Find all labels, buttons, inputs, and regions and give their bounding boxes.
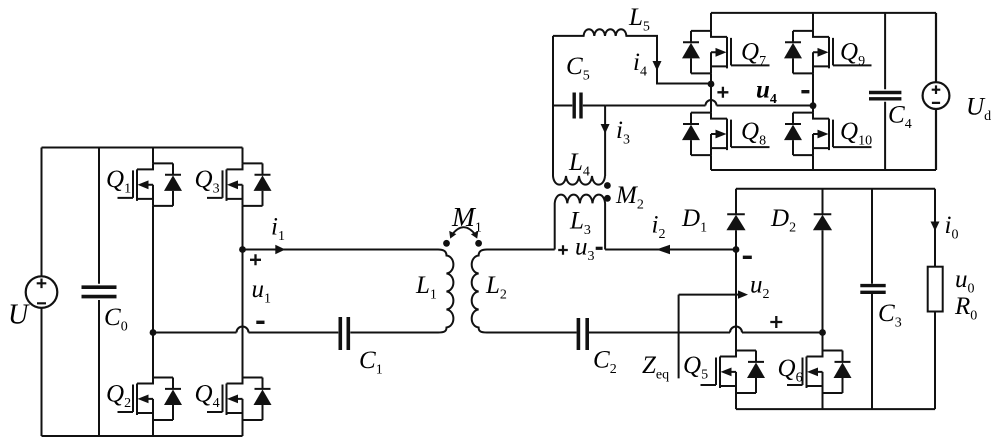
- current arrow i3: [601, 124, 610, 134]
- transistor Q9: [784, 31, 872, 74]
- wire Q1/Q2 leg: [152, 148, 154, 437]
- transistor Q6: [787, 351, 852, 394]
- label u2 minus sign: [743, 256, 752, 259]
- label u1 plus: [250, 254, 261, 265]
- wire D2/Q6 leg: [822, 189, 824, 409]
- node u4 plus: [708, 81, 715, 88]
- transistor Q2: [118, 378, 183, 421]
- wire D1/Q5 leg: [735, 189, 737, 409]
- transistor Q8: [682, 113, 770, 156]
- wire C5 to bridge with hop: [605, 105, 813, 107]
- capacitor C5: [574, 93, 581, 119]
- transistor Q3: [207, 163, 272, 206]
- node rectifier ac2: [819, 329, 826, 336]
- capacitor C5 branch: [553, 105, 605, 107]
- source U: [26, 276, 58, 308]
- node bridge output -: [150, 329, 157, 336]
- node bridge output +: [239, 246, 246, 253]
- transistor Q5: [701, 351, 766, 394]
- node L1 dot: [443, 240, 450, 247]
- wire HF bridge top rail: [711, 12, 936, 14]
- current arrow i1: [275, 245, 285, 254]
- source Ud: [923, 13, 950, 170]
- transistor Q1: [118, 163, 183, 206]
- capacitor C0: [82, 148, 117, 437]
- diode D2: [813, 214, 832, 230]
- wire bottom output with hop: [153, 332, 438, 334]
- inductor L2: [472, 250, 487, 333]
- wire i3 vertical: [604, 106, 606, 177]
- node u4 minus: [810, 102, 817, 109]
- svg-text:U: U: [8, 300, 30, 331]
- inductor L5: [553, 29, 711, 83]
- wire secondary bottom: [487, 332, 823, 334]
- wire HF bridge bottom rail: [711, 169, 936, 171]
- node L2 dot: [475, 240, 482, 247]
- label u4 plus sign: [717, 87, 728, 98]
- wire load leg: [934, 189, 936, 409]
- node M2 dot lower: [604, 195, 611, 202]
- wire left edge source leg: [41, 148, 43, 437]
- wire Q9/Q10 leg: [812, 13, 814, 170]
- label u4 minus sign: [801, 90, 809, 93]
- capacitor C3: [860, 189, 885, 409]
- capacitor C4: [869, 13, 901, 170]
- inductor L3: [555, 195, 605, 250]
- inductor L4: [553, 36, 605, 185]
- label u2 arrow: [679, 290, 748, 378]
- transistor Q10: [784, 113, 872, 156]
- capacitor C1: [340, 317, 348, 350]
- capacitor C2: [578, 318, 587, 350]
- inductor L1: [438, 250, 453, 333]
- wire i2: [605, 249, 736, 251]
- current arrow i2: [656, 245, 670, 254]
- wire left bridge bottom rail: [42, 435, 243, 437]
- wire hop over Q3Q4 leg: [237, 327, 249, 333]
- diode D1: [726, 214, 745, 230]
- wire rectifier top rail: [736, 188, 935, 190]
- transistor Q4: [207, 378, 272, 421]
- node i2 junction: [733, 246, 740, 253]
- wire hop over D1Q5 leg: [730, 327, 742, 333]
- transistor Q7: [682, 31, 770, 74]
- wire Q7/Q8 leg: [710, 13, 712, 170]
- wire i1 output: [243, 249, 439, 251]
- wire secondary top: [487, 249, 555, 251]
- wire rectifier bottom rail: [736, 408, 935, 410]
- label u3 plus: [558, 245, 568, 255]
- current arrow i0: [931, 222, 940, 232]
- wire left bridge top rail: [42, 147, 243, 149]
- current arrow i4: [653, 61, 662, 71]
- node M2 dot upper: [604, 182, 611, 189]
- label u3 minus: [596, 247, 603, 250]
- label u2 plus sign: [770, 316, 782, 328]
- wire Q3/Q4 leg: [242, 148, 244, 437]
- resistor R0: [928, 267, 943, 312]
- coupling arrow M1: [449, 227, 478, 238]
- label u1 minus: [256, 321, 264, 324]
- wire hop over Q7Q8 leg: [706, 100, 717, 106]
